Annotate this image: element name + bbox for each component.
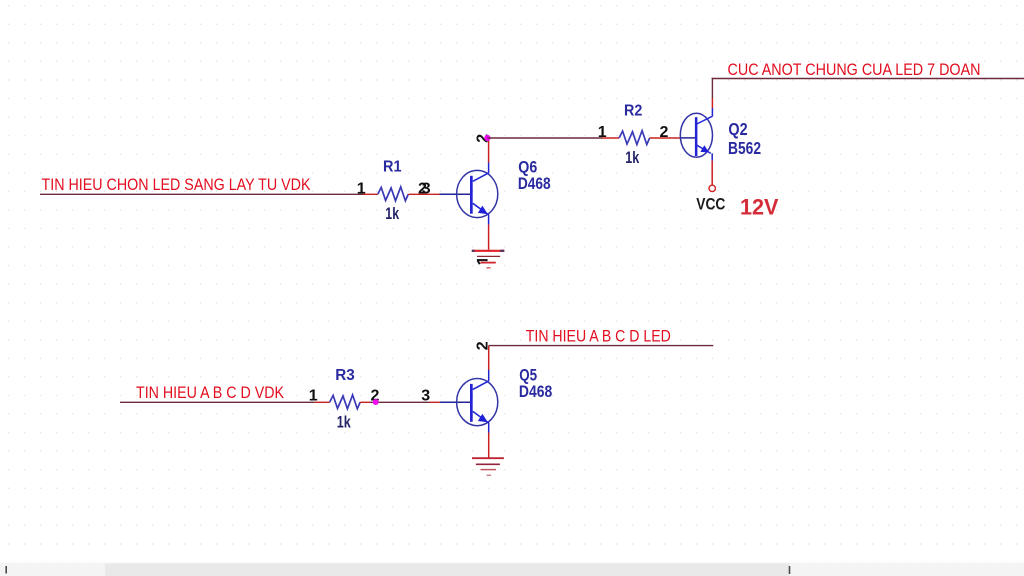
wire red segment to Q5 base pin — [430, 401, 441, 403]
ground Q5 bar1 — [472, 457, 504, 459]
resistor R3 — [330, 395, 361, 409]
wire Q6 emitter down — [488, 225, 490, 250]
wire R2 pin2 to Q2 base — [650, 137, 681, 139]
wire R3 pin2 to Q5 base — [370, 401, 430, 403]
Q6 base lead — [440, 193, 471, 195]
Q5 base bar — [470, 384, 473, 422]
Q6 collector pin lead vertical — [488, 163, 490, 174]
svg-text:3: 3 — [422, 181, 431, 198]
resistor R1 — [378, 187, 409, 201]
wire Q5 emitter down — [488, 433, 490, 458]
scrollbar right tick — [789, 566, 791, 574]
svg-text:12V: 12V — [740, 194, 779, 219]
svg-text:D468: D468 — [519, 382, 552, 401]
node dot R3 pin2 — [373, 399, 379, 405]
Q2 base lead — [680, 137, 695, 139]
top net wire — [712, 78, 1024, 80]
svg-text:B562: B562 — [728, 138, 761, 158]
svg-text:VCC: VCC — [696, 194, 725, 213]
svg-text:D468: D468 — [518, 174, 551, 193]
ground Q6 bar1 dark ends — [472, 250, 475, 252]
Q5 collector lead — [473, 381, 489, 389]
transistor Q6 circle — [457, 170, 498, 217]
Q2 emitter arrow — [700, 145, 709, 152]
ground Q6 black bar — [477, 259, 488, 261]
wire R2 pin1 lead — [602, 137, 619, 139]
wire net to R1 pin1 — [40, 193, 363, 195]
Q5 emitter lead — [473, 411, 488, 422]
Q5 emitter arrow — [478, 414, 488, 423]
Q5 collector pin lead vertical — [488, 370, 490, 381]
svg-text:R1: R1 — [383, 159, 402, 176]
svg-text:Q2: Q2 — [728, 119, 747, 139]
ground Q6 bar3 — [481, 262, 496, 264]
wire Q2 emitter down — [711, 161, 713, 186]
Q6 base bar — [470, 176, 473, 214]
svg-text:R2: R2 — [624, 103, 642, 120]
Q6 emitter pin lead vertical — [488, 214, 490, 224]
svg-text:TIN HIEU A B C D VDK: TIN HIEU A B C D VDK — [136, 383, 285, 402]
wire node to R2 pin1 — [487, 137, 602, 139]
ground Q6 bar4 — [487, 267, 491, 269]
svg-text:3: 3 — [421, 388, 430, 405]
scrollbar thumb — [105, 564, 790, 576]
bottom net wire — [489, 345, 714, 347]
Q6 emitter arrow — [478, 206, 488, 215]
Q5 emitter pin lead vertical — [488, 423, 490, 433]
wire Q2 collector to top net — [711, 78, 713, 98]
svg-text:CUC ANOT CHUNG CUA LED 7 DOAN: CUC ANOT CHUNG CUA LED 7 DOAN — [728, 60, 981, 79]
wire R1 pin2 to Q6 base — [408, 193, 439, 195]
svg-text:1k: 1k — [337, 414, 352, 432]
ground Q6 black tick — [478, 261, 480, 265]
resistor R2 — [619, 131, 650, 145]
node junction dot — [484, 135, 490, 141]
power pin VCC circle — [709, 185, 715, 191]
transistor Q2 circle — [680, 113, 712, 157]
Q2 emitter pin lead vertical — [711, 153, 713, 160]
svg-text:R3: R3 — [335, 367, 355, 384]
scrollbar left tick — [5, 566, 7, 574]
ground Q6 bar1 — [472, 250, 505, 252]
wire Q6 collector up — [488, 138, 490, 163]
Q2 collector pin lead vertical — [711, 108, 713, 117]
Q5 base lead — [440, 401, 470, 403]
Q6 collector lead — [473, 173, 489, 181]
wire R3 pin1 lead — [315, 401, 330, 403]
svg-text:TIN HIEU CHON LED SANG LAY TU: TIN HIEU CHON LED SANG LAY TU VDK — [42, 175, 312, 194]
transistor Q5 circle — [457, 379, 498, 426]
wire Q2 collector up — [711, 98, 713, 108]
wire R3 pin2 lead — [360, 401, 370, 403]
Q6 emitter lead — [473, 203, 488, 214]
Q2 emitter lead — [697, 145, 711, 153]
svg-text:1k: 1k — [625, 149, 640, 167]
ground Q6 bar2 — [477, 255, 500, 257]
wire R1 pin1 lead — [363, 193, 378, 195]
ground Q5 bar4 — [487, 474, 492, 476]
Q2 collector lead — [697, 116, 712, 124]
scrollbar track — [0, 563, 1024, 576]
svg-text:TIN HIEU A B C D LED: TIN HIEU A B C D LED — [526, 327, 671, 346]
wire Q5 collector up — [488, 346, 490, 370]
Q2 base bar — [695, 117, 698, 156]
svg-text:1k: 1k — [385, 205, 399, 223]
ground Q5 bar3 — [481, 469, 497, 471]
ground Q5 bar2 — [476, 463, 500, 465]
wire net to R3 pin1 — [120, 401, 315, 403]
